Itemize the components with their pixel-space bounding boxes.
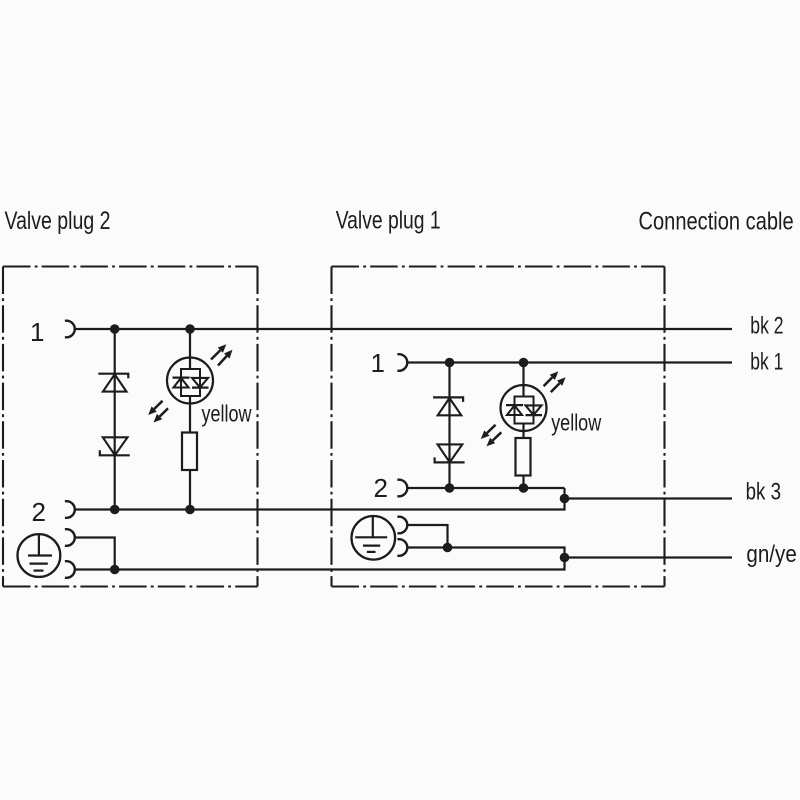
svg-text:Valve plug 1: Valve plug 1 xyxy=(336,207,441,235)
svg-text:bk 2: bk 2 xyxy=(750,312,783,339)
svg-text:gn/ye: gn/ye xyxy=(746,541,796,568)
svg-text:yellow: yellow xyxy=(551,410,601,436)
svg-text:1: 1 xyxy=(371,348,385,378)
svg-text:yellow: yellow xyxy=(202,401,252,427)
svg-text:Connection cable: Connection cable xyxy=(639,208,794,236)
svg-text:1: 1 xyxy=(30,317,44,347)
svg-text:Valve plug 2: Valve plug 2 xyxy=(5,207,111,235)
svg-text:bk 1: bk 1 xyxy=(750,349,783,376)
svg-text:2: 2 xyxy=(32,497,46,527)
svg-text:bk 3: bk 3 xyxy=(746,478,781,505)
svg-text:2: 2 xyxy=(374,473,388,503)
